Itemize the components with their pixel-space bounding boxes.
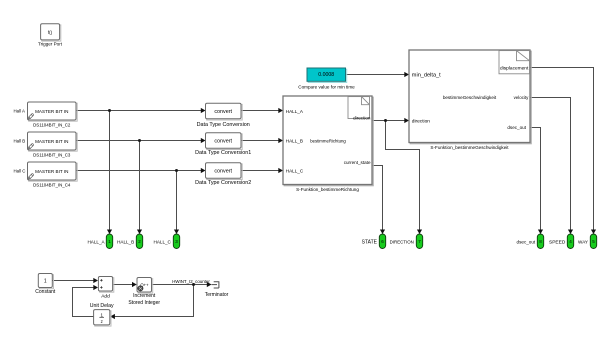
svg-text:HALL_A: HALL_A	[286, 109, 304, 114]
svg-text:SPEED: SPEED	[549, 239, 566, 245]
svg-text:S-Funktion_bestimmeRichtung: S-Funktion_bestimmeRichtung	[296, 187, 359, 192]
svg-text:DS1104BIT_IN_C3: DS1104BIT_IN_C3	[33, 152, 71, 157]
svg-text:MASTER BIT IN: MASTER BIT IN	[35, 139, 68, 144]
svg-text:bestimmeGeschwindigkeit: bestimmeGeschwindigkeit	[443, 95, 497, 100]
svg-text:Terminator: Terminator	[205, 292, 229, 298]
svg-text:Hall B: Hall B	[14, 139, 26, 144]
svg-text:DIRECTION: DIRECTION	[390, 239, 414, 244]
svg-text:Data Type Conversion: Data Type Conversion	[197, 122, 250, 128]
svg-text:Hall C: Hall C	[14, 169, 26, 174]
svg-text:Constant: Constant	[35, 289, 56, 295]
svg-text:Unit Delay: Unit Delay	[90, 303, 114, 309]
svg-text:DS1104BIT_IN_C2: DS1104BIT_IN_C2	[33, 122, 71, 127]
svg-text:dsec_out: dsec_out	[507, 125, 526, 130]
svg-text:direction: direction	[353, 115, 371, 120]
svg-text:HALL_C: HALL_C	[286, 169, 304, 174]
svg-text:velocity: velocity	[514, 95, 529, 100]
svg-text:MASTER BIT IN: MASTER BIT IN	[35, 169, 68, 174]
svg-text:Increment: Increment	[133, 293, 156, 299]
svg-text:WAY: WAY	[578, 239, 588, 244]
svg-text:direction: direction	[412, 118, 430, 124]
svg-text:f(): f()	[48, 30, 53, 35]
svg-text:current_state: current_state	[344, 160, 371, 165]
svg-text:Data Type Conversion1: Data Type Conversion1	[195, 150, 251, 156]
svg-text:Trigger Port: Trigger Port	[38, 41, 63, 46]
svg-text:HALL_C: HALL_C	[154, 239, 172, 244]
svg-text:dsec_out: dsec_out	[517, 239, 536, 244]
svg-text:HALL_A: HALL_A	[87, 239, 105, 244]
svg-text:HWINT_I2_counter: HWINT_I2_counter	[172, 279, 210, 284]
svg-text:HALL_B: HALL_B	[117, 239, 134, 244]
svg-text:0.0008: 0.0008	[318, 72, 334, 78]
svg-text:Add: Add	[101, 294, 110, 300]
svg-text:Hall A: Hall A	[14, 109, 26, 114]
svg-text:min_delta_t: min_delta_t	[412, 72, 441, 78]
svg-text:HALL_B: HALL_B	[286, 139, 303, 144]
svg-text:STATE: STATE	[362, 239, 378, 245]
svg-text:1: 1	[44, 279, 47, 285]
svg-text:DS1104BIT_IN_C4: DS1104BIT_IN_C4	[33, 182, 71, 187]
svg-text:displacement: displacement	[500, 65, 529, 71]
svg-text:Compare value for min time: Compare value for min time	[298, 85, 355, 90]
svg-text:bestimmeRichtung: bestimmeRichtung	[310, 138, 346, 143]
svg-text:convert: convert	[214, 109, 232, 115]
svg-text:Stored Integer: Stored Integer	[128, 300, 160, 306]
svg-text:convert: convert	[214, 169, 232, 175]
svg-text:convert: convert	[214, 139, 232, 145]
svg-text:Data Type Conversion2: Data Type Conversion2	[195, 180, 251, 186]
svg-text:MASTER BIT IN: MASTER BIT IN	[35, 109, 68, 114]
svg-text:S-Funktion_bestimmeGeschwindig: S-Funktion_bestimmeGeschwindigkeit	[430, 145, 509, 150]
